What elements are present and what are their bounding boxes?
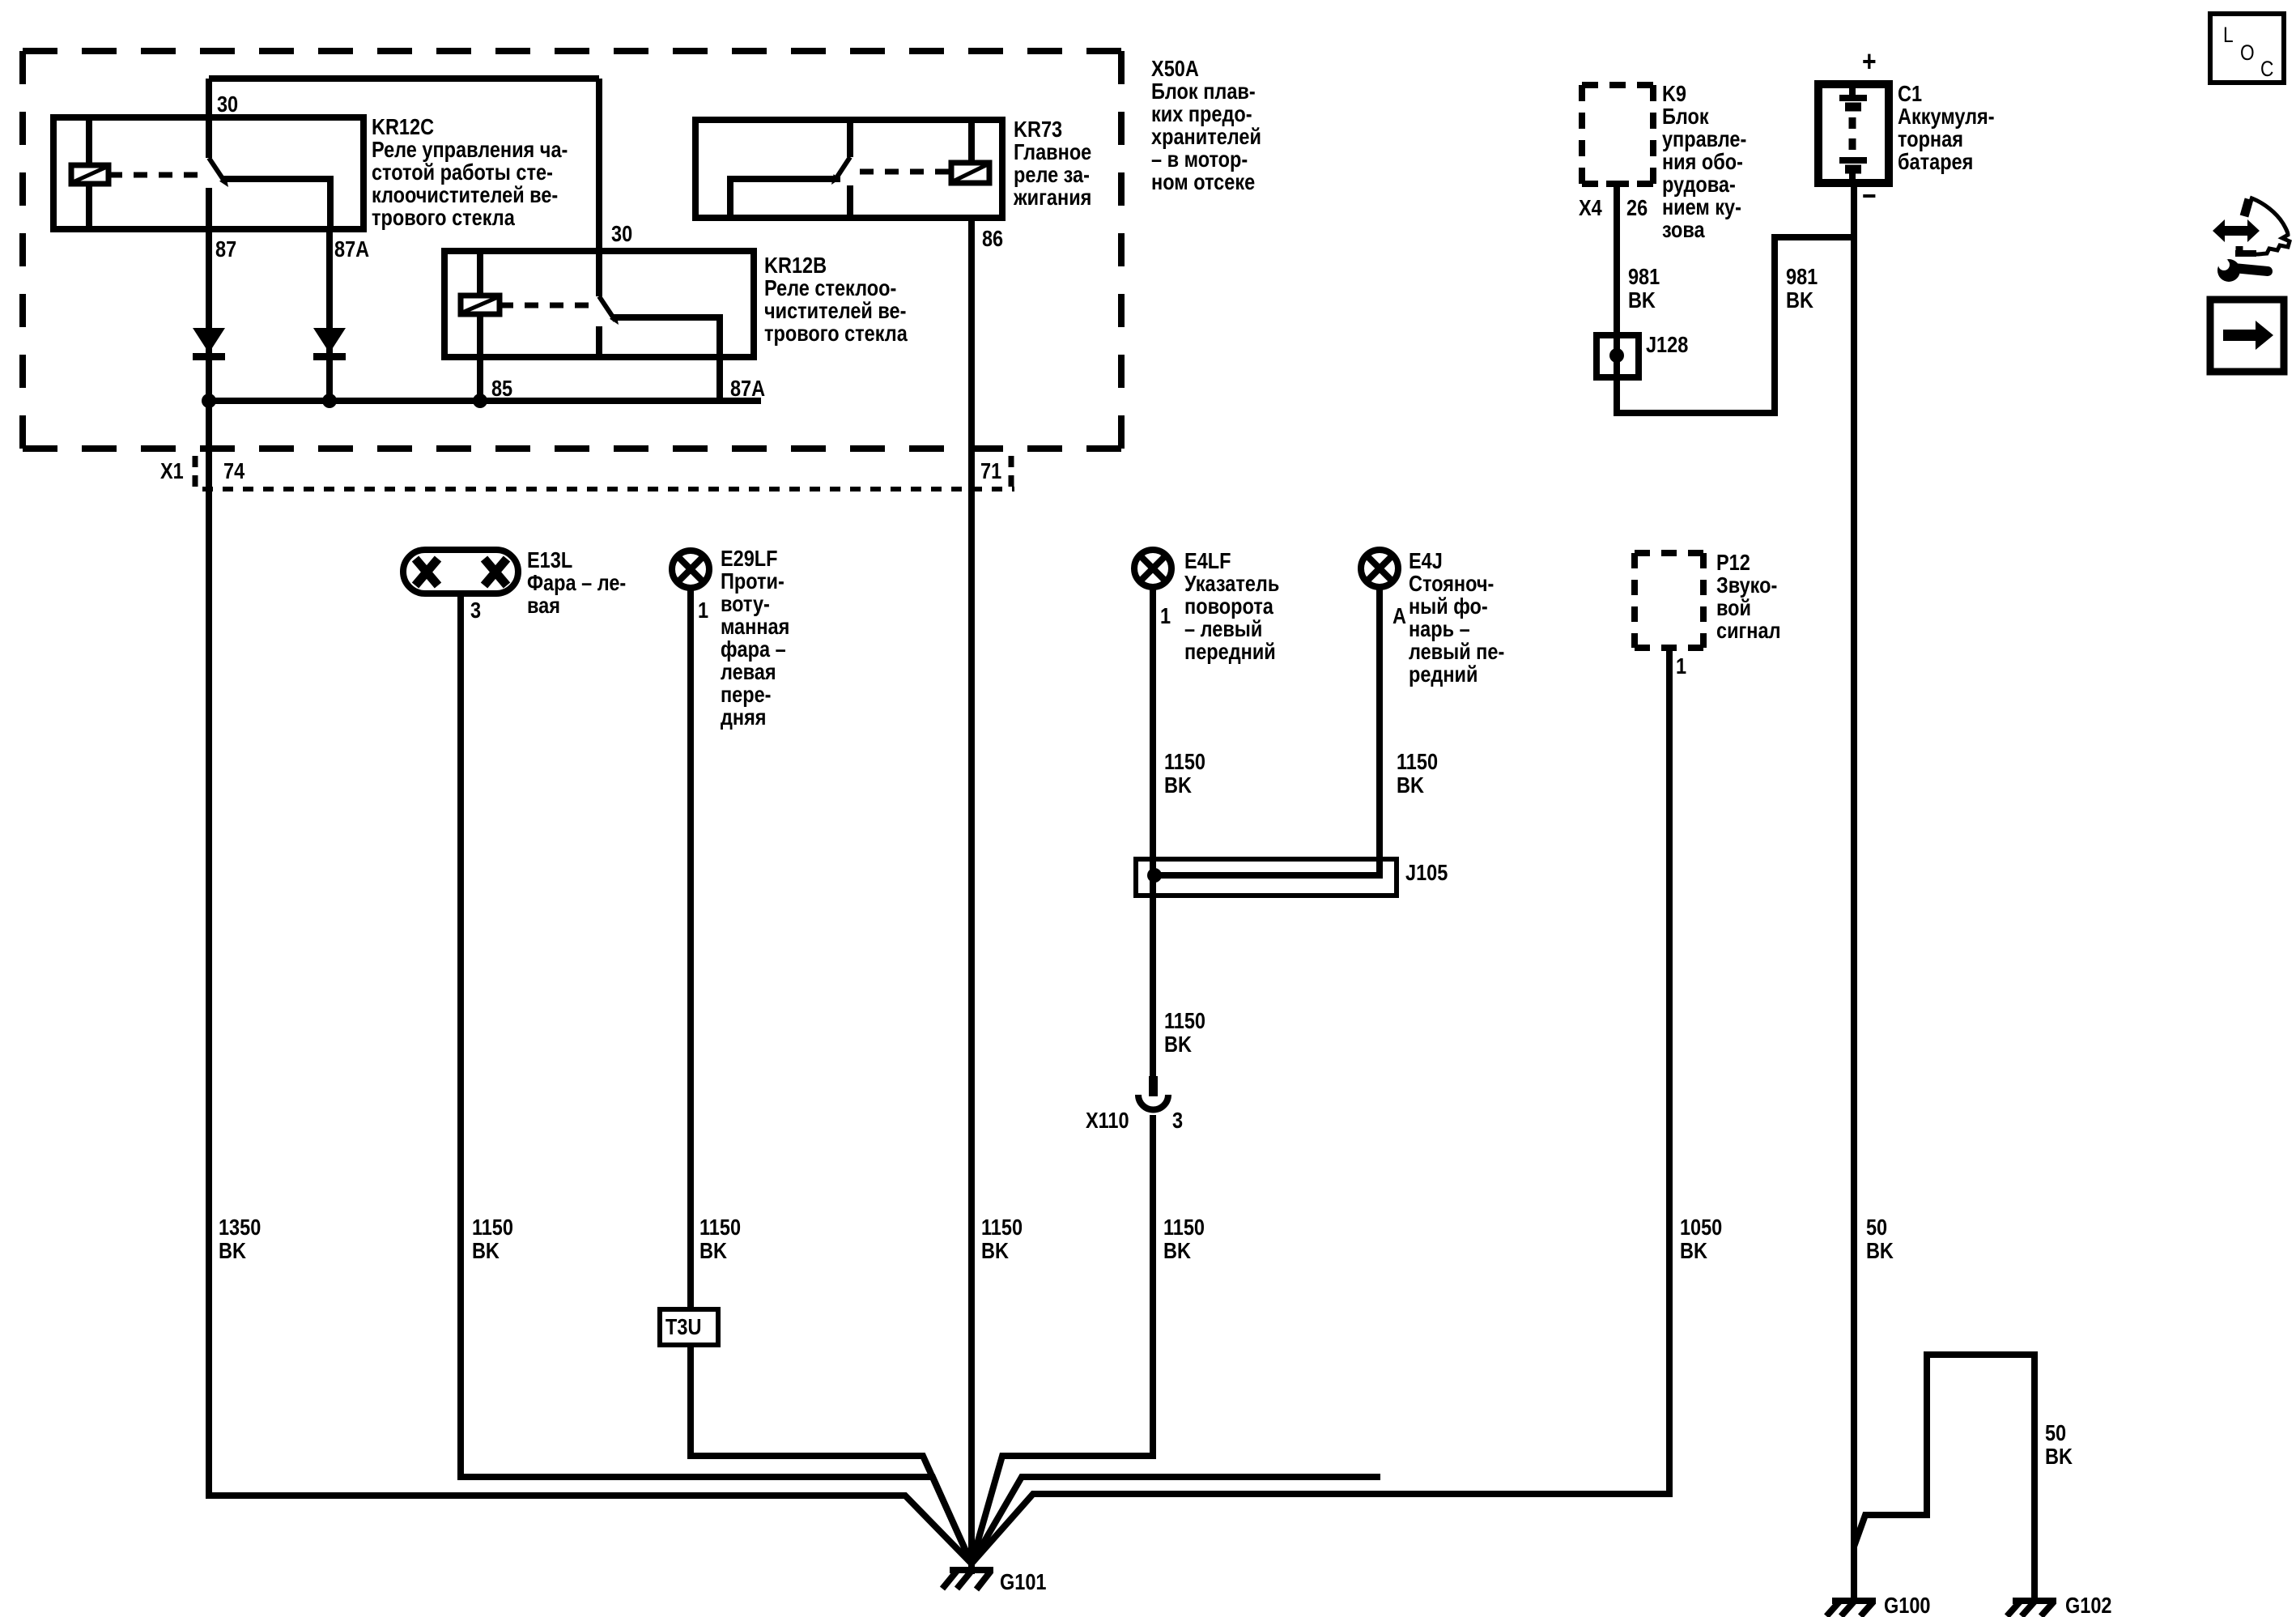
svg-text:BK: BK	[2045, 1445, 2073, 1469]
svg-text:X50A: X50A	[1151, 57, 1199, 81]
relay KR12B pin stub	[596, 326, 602, 357]
fuse block X50A dashed outline	[23, 51, 1121, 449]
svg-text:O: O	[2240, 40, 2255, 65]
icon arrow box	[2210, 300, 2284, 372]
svg-text:управле-: управле-	[1662, 127, 1746, 151]
node bus-87A	[322, 394, 337, 408]
svg-text:вой: вой	[1716, 596, 1751, 620]
body control module K9 dashed box	[1582, 85, 1653, 184]
wire 1350 BK from X1:74 to ground bus	[209, 401, 972, 1564]
svg-text:Блок: Блок	[1662, 104, 1709, 129]
svg-text:BK: BK	[1786, 288, 1813, 313]
svg-text:X4: X4	[1579, 196, 1602, 220]
svg-text:KR12C: KR12C	[372, 115, 434, 139]
icon wrench	[2213, 254, 2268, 282]
wire KR73 86 to G101	[968, 218, 975, 1574]
svg-text:E29LF: E29LF	[721, 547, 778, 571]
svg-text:50: 50	[2045, 1421, 2066, 1445]
svg-text:1: 1	[698, 598, 708, 623]
svg-text:клоочистителей ве-: клоочистителей ве-	[372, 183, 558, 207]
relay KR73 NC contact line	[730, 179, 840, 218]
relay KR73 box	[695, 120, 1002, 218]
svg-text:L: L	[2223, 23, 2234, 47]
svg-text:дняя: дняя	[721, 705, 767, 730]
svg-text:Стояноч-: Стояноч-	[1409, 572, 1494, 596]
svg-text:85: 85	[491, 377, 512, 401]
connector X1 tick left	[193, 456, 198, 491]
relay KR12C coil stub top	[86, 117, 92, 165]
svg-text:торная: торная	[1898, 127, 1963, 151]
svg-text:BK: BK	[219, 1239, 246, 1263]
svg-text:ном отсеке: ном отсеке	[1151, 170, 1255, 194]
icon car outline	[2213, 198, 2290, 254]
svg-text:3: 3	[470, 598, 481, 623]
wire 87A down to bus	[326, 229, 333, 401]
wire 87 down to bus	[206, 229, 212, 401]
splice T3U box	[660, 1309, 718, 1345]
svg-text:BK: BK	[1866, 1239, 1894, 1263]
relay KR12B box	[444, 251, 754, 357]
ground G101	[942, 1570, 993, 1589]
svg-text:трового стекла: трового стекла	[372, 206, 515, 230]
svg-text:чистителей ве-: чистителей ве-	[764, 299, 906, 323]
svg-text:BK: BK	[472, 1239, 500, 1263]
svg-text:50: 50	[1866, 1215, 1887, 1240]
connector X1 tick right	[1009, 456, 1014, 491]
svg-text:26: 26	[1626, 196, 1648, 220]
svg-text:реле за-: реле за-	[1014, 163, 1090, 187]
lamp E13L headlamp	[403, 550, 518, 594]
svg-text:87: 87	[215, 237, 236, 262]
svg-text:E13L: E13L	[527, 548, 572, 572]
wire E4LF down through J105 to X110	[1150, 587, 1156, 1076]
svg-text:BK: BK	[1680, 1239, 1707, 1263]
svg-text:30: 30	[217, 92, 238, 117]
relay KR12B coil stub top	[477, 251, 483, 296]
wire K9 981 BK	[1617, 184, 1854, 413]
svg-text:C1: C1	[1898, 82, 1922, 106]
ground G100	[1826, 1601, 1876, 1616]
relay KR73 coil stub top	[968, 120, 975, 163]
svg-text:BK: BK	[1163, 1239, 1191, 1263]
svg-text:хранителей: хранителей	[1151, 125, 1261, 149]
splice pack J105 box	[1136, 859, 1397, 896]
svg-text:Проти-: Проти-	[721, 569, 784, 594]
connector X110 pin stub	[1149, 1076, 1158, 1096]
wire E29LF to ground bus	[691, 588, 972, 1564]
lamp E4J parking lamp	[1361, 550, 1398, 587]
wire stub right 1824	[972, 1477, 1380, 1564]
connector X110 socket	[1138, 1095, 1168, 1110]
svg-text:BK: BK	[1164, 1032, 1192, 1057]
svg-text:X110: X110	[1086, 1108, 1129, 1133]
node J105 junction	[1147, 868, 1162, 883]
svg-text:сигнал: сигнал	[1716, 619, 1781, 643]
relay KR12C box	[53, 117, 364, 229]
wire ground loop to G102	[1854, 1355, 2035, 1601]
svg-text:нием ку-: нием ку-	[1662, 195, 1741, 219]
wire battery 50 BK to G100	[1851, 183, 1857, 1601]
relay KR12C coil stub bottom	[86, 184, 92, 229]
relay KR12B NC contact line / pin 87A wire	[614, 317, 720, 401]
svg-text:1050: 1050	[1680, 1215, 1722, 1240]
wire pin30 KR12C	[206, 79, 212, 158]
relay KR73 coil dashed link	[860, 169, 951, 175]
svg-text:30: 30	[611, 222, 632, 246]
svg-text:BK: BK	[1164, 773, 1192, 798]
svg-text:жигания: жигания	[1013, 185, 1091, 210]
svg-text:G100: G100	[1884, 1594, 1931, 1617]
relay KR12B coil dashed link	[500, 303, 593, 309]
svg-text:рудова-: рудова-	[1662, 172, 1736, 197]
relay KR12C coil	[71, 165, 108, 184]
svg-text:1: 1	[1160, 604, 1171, 628]
svg-text:1150: 1150	[1163, 1215, 1205, 1240]
wire pin30 KR12B	[596, 79, 602, 296]
svg-text:пере-: пере-	[721, 683, 772, 707]
relay KR12C NC contact line	[223, 179, 330, 229]
svg-text:E4LF: E4LF	[1184, 549, 1231, 573]
svg-text:T3U: T3U	[665, 1315, 701, 1339]
relay KR12B coil stub bottom / pin 85 wire	[477, 314, 483, 401]
svg-text:вая: вая	[527, 594, 560, 618]
relay KR73 switch arm	[831, 157, 850, 185]
svg-text:1150: 1150	[981, 1215, 1023, 1240]
svg-text:Указатель: Указатель	[1184, 572, 1279, 596]
battery C1 cell plates	[1839, 84, 1867, 183]
svg-text:зова: зова	[1662, 218, 1705, 242]
svg-text:G102: G102	[2065, 1594, 2112, 1617]
svg-text:C: C	[2260, 57, 2273, 81]
svg-text:левый пе-: левый пе-	[1409, 640, 1504, 664]
svg-text:K9: K9	[1662, 82, 1686, 106]
battery C1 box	[1818, 84, 1889, 183]
node bus-87	[202, 394, 216, 408]
svg-text:981: 981	[1786, 265, 1818, 289]
svg-text:P12: P12	[1716, 551, 1750, 575]
svg-text:Звуко-: Звуко-	[1716, 573, 1777, 598]
svg-text:ния обо-: ния обо-	[1662, 150, 1743, 174]
svg-text:ный фо-: ный фо-	[1409, 594, 1488, 619]
svg-text:поворота: поворота	[1184, 594, 1273, 619]
svg-text:нарь –: нарь –	[1409, 617, 1470, 641]
svg-text:передний: передний	[1184, 640, 1276, 664]
svg-text:Главное: Главное	[1014, 140, 1091, 164]
relay KR12C coil dashed link	[108, 172, 202, 178]
svg-text:E4J: E4J	[1409, 549, 1443, 573]
svg-text:стотой работы сте-: стотой работы сте-	[372, 160, 553, 185]
svg-text:−: −	[1862, 181, 1877, 213]
svg-text:1150: 1150	[699, 1215, 741, 1240]
relay KR12B switch arm	[599, 296, 619, 325]
svg-text:манная: манная	[721, 615, 789, 639]
lamp E4LF turn signal	[1134, 550, 1171, 587]
svg-text:1150: 1150	[1164, 1009, 1205, 1033]
svg-text:74: 74	[223, 459, 245, 483]
node bus-85	[473, 394, 487, 408]
svg-text:Реле управления ча-: Реле управления ча-	[372, 138, 568, 162]
svg-text:BK: BK	[699, 1239, 727, 1263]
wire E13L to ground bus	[461, 594, 972, 1564]
diode D2	[313, 328, 346, 360]
svg-text:71: 71	[980, 459, 1001, 483]
svg-text:3: 3	[1172, 1108, 1183, 1133]
svg-text:воту-: воту-	[721, 592, 770, 616]
wire 30 bus top	[209, 75, 599, 82]
horn P12 dashed box	[1635, 553, 1703, 648]
svg-text:левая: левая	[721, 660, 776, 684]
svg-text:– левый: – левый	[1184, 617, 1262, 641]
svg-text:J105: J105	[1405, 861, 1448, 885]
svg-text:фара –: фара –	[721, 637, 786, 662]
svg-text:87A: 87A	[334, 237, 369, 262]
svg-text:86: 86	[982, 227, 1003, 251]
svg-text:981: 981	[1628, 265, 1660, 289]
svg-text:+: +	[1862, 46, 1877, 79]
svg-text:– в мотор-: – в мотор-	[1151, 147, 1248, 172]
wire P12 1050 BK to ground bus	[972, 648, 1669, 1564]
relay KR73 pin stub	[847, 185, 853, 218]
diode D1	[193, 328, 225, 360]
svg-text:редний: редний	[1409, 662, 1478, 687]
svg-text:1350: 1350	[219, 1215, 261, 1240]
svg-text:KR12B: KR12B	[764, 253, 827, 278]
svg-text:KR73: KR73	[1014, 117, 1062, 142]
relay KR12C switch arm	[209, 158, 228, 187]
svg-text:ких предо-: ких предо-	[1151, 102, 1252, 126]
svg-text:BK: BK	[1628, 288, 1656, 313]
splice J128 box	[1597, 335, 1639, 377]
svg-text:Фара – ле-: Фара – ле-	[527, 571, 626, 595]
svg-text:G101: G101	[1000, 1570, 1047, 1594]
node J128 junction	[1609, 348, 1624, 363]
lamp E29LF fog lamp	[672, 551, 709, 588]
icon LOC box	[2210, 14, 2284, 83]
wire X110 to ground bus	[972, 1115, 1153, 1564]
connector X4 pin bar	[1606, 181, 1629, 187]
relay KR73 common stub	[847, 120, 853, 157]
relay KR12B coil	[461, 296, 500, 314]
svg-text:X1: X1	[160, 459, 184, 483]
svg-text:A: A	[1392, 604, 1406, 628]
svg-text:Реле стеклоо-: Реле стеклоо-	[764, 276, 896, 300]
svg-text:трового стекла: трового стекла	[764, 321, 908, 346]
connector X1 dashed strip	[202, 487, 1014, 491]
svg-text:батарея: батарея	[1898, 150, 1973, 174]
relay KR12C pin87 stub	[206, 188, 212, 229]
svg-text:1: 1	[1676, 654, 1686, 679]
ground G102	[2007, 1601, 2056, 1616]
svg-text:BK: BK	[1397, 773, 1424, 798]
svg-text:87A: 87A	[730, 377, 765, 401]
svg-text:1150: 1150	[1164, 750, 1205, 774]
svg-text:1150: 1150	[472, 1215, 513, 1240]
svg-text:1150: 1150	[1397, 750, 1438, 774]
svg-text:J128: J128	[1646, 333, 1688, 357]
wire E4J down into J105	[1154, 587, 1380, 875]
svg-text:BK: BK	[981, 1239, 1009, 1263]
svg-text:Аккумуля-: Аккумуля-	[1898, 104, 1995, 129]
wire ground bus inside fuse block	[209, 398, 761, 404]
relay KR73 coil	[951, 163, 989, 183]
svg-text:Блок плав-: Блок плав-	[1151, 79, 1256, 104]
